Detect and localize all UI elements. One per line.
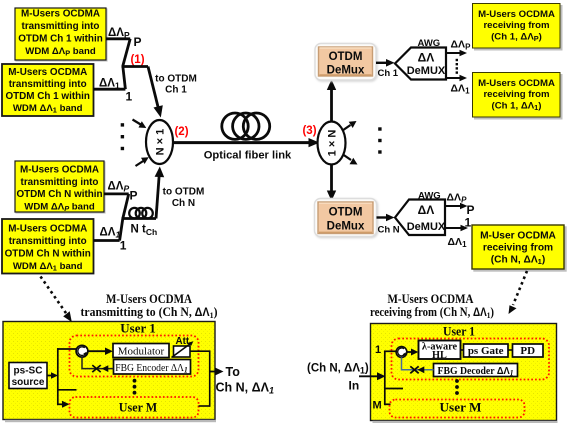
svg-text:receiving from: receiving from (483, 242, 553, 253)
svg-text:User M: User M (119, 400, 158, 415)
svg-text:M-User OCDMA: M-User OCDMA (480, 231, 556, 242)
svg-text:ΔΛ: ΔΛ (418, 203, 435, 217)
dots between AWG1 outputs (456, 59, 458, 61)
wire from box3 to node P (104, 192, 129, 195)
wire splitter down to OTDM DeMux ChN, arrow down (330, 165, 333, 194)
wire junction to bend (122, 65, 149, 68)
svg-text:(Ch N, ΔΛ1): (Ch N, ΔΛ1) (491, 254, 546, 266)
svg-text:DeMux: DeMux (327, 220, 365, 232)
svg-text:(1): (1) (130, 54, 144, 66)
input arrow into receiver panel (359, 375, 378, 377)
svg-text:transmitting into: transmitting into (22, 21, 100, 32)
yellow box: M-Users OCDMA transmitting into OTDM Ch 1 within WDM dLp band (15, 8, 106, 60)
attenuator symbol (174, 346, 191, 357)
dotted arrow from (Ch N) receive box to receiver panel (513, 271, 527, 305)
user 1 dashed box (transmitter) (70, 336, 199, 377)
dots between users (transmitter) (133, 379, 137, 383)
OTDM DeMux box (Ch 1) (315, 44, 376, 81)
yellow box: M-User OCDMA receiving from (Ch N, dL_1) (472, 225, 564, 269)
svg-text:M-Users OCDMA: M-Users OCDMA (21, 9, 100, 20)
svg-text:ps-SC: ps-SC (14, 366, 43, 377)
AWG1 output wire dL_P with arrow (446, 52, 461, 54)
Modulator box (113, 344, 169, 358)
wire circulator down to FBG Decoder (402, 357, 434, 369)
ps Gate box (464, 344, 509, 357)
AWG2 output wire dL_P with arrow, node P (445, 205, 462, 207)
small input arrow upper-left of combiner (133, 120, 142, 126)
splice X symbol (receiver) (410, 366, 418, 373)
input bus (receiver) (384, 351, 386, 406)
FBG Encoder box (114, 360, 191, 375)
output arrow To Ch N (210, 371, 216, 373)
optical fiber link line with arrow (173, 141, 312, 144)
svg-text:To: To (226, 365, 241, 379)
small output arrow lower-right of splitter (343, 155, 351, 161)
receiver panel (bottom-right yellow panel) (371, 324, 557, 421)
svg-text:M-Users OCDMA: M-Users OCDMA (8, 224, 87, 235)
svg-text:transmitting into: transmitting into (9, 236, 87, 247)
svg-text:Ch N, ΔΛ1: Ch N, ΔΛ1 (216, 381, 274, 396)
AWG dL DeMUX (Ch 1) pentagon (395, 48, 446, 80)
fiber coil (222, 113, 248, 139)
wire ps Gate to PD (508, 349, 513, 351)
svg-text:DeMUX: DeMUX (407, 65, 446, 77)
svg-text:HL: HL (432, 350, 447, 361)
wire HL to ps Gate (461, 349, 464, 351)
splitter 1 x N ellipse (318, 122, 346, 165)
yellow box: M-Users OCDMA transmitting into OTDM Ch N within WDM dL1 band (2, 219, 94, 274)
left arrowhead on FBG wire (102, 365, 109, 372)
svg-text:WDM ΔΛ1 band: WDM ΔΛ1 band (13, 261, 83, 273)
svg-text:Ch N: Ch N (378, 225, 400, 236)
wire up to combiner with arrow (156, 175, 159, 219)
AWG1 output wire dL_1 with arrow (446, 77, 461, 79)
svg-text:(3): (3) (302, 125, 316, 137)
svg-text:OTDM Ch N within: OTDM Ch N within (16, 189, 102, 200)
svg-text:Ch 1: Ch 1 (378, 68, 399, 79)
circulator (transmitter) (76, 345, 88, 357)
splitter bus (transmitter) (57, 348, 59, 405)
arrow circulator to Modulator (88, 350, 106, 352)
wire attenuator to output bus (190, 350, 210, 352)
svg-text:transmitting into: transmitting into (9, 79, 87, 90)
PD box (513, 344, 544, 357)
svg-text:User 1: User 1 (443, 324, 475, 339)
svg-text:User M: User M (440, 400, 482, 415)
svg-text:transmitting to (Ch N, ΔΛ1): transmitting to (Ch N, ΔΛ1) (81, 305, 218, 320)
wire diagonal P down to junction (123, 39, 130, 66)
vertical ellipsis dots left of combiner (121, 123, 124, 126)
svg-text:Modulator: Modulator (118, 345, 165, 357)
wire from box4 to node 1 (94, 239, 120, 242)
AWG dL DeMUX (Ch N) pentagon (395, 200, 445, 236)
svg-text:WDM ΔΛ1 band: WDM ΔΛ1 band (13, 103, 83, 115)
svg-text:FBG Encoder ΔΛ1: FBG Encoder ΔΛ1 (115, 362, 187, 375)
svg-text:1: 1 (465, 215, 472, 229)
wire from box2 to node 1 (94, 88, 126, 91)
arrow ps-SC to bus (47, 375, 52, 377)
svg-text:P: P (134, 35, 142, 49)
branch to user 1 (57, 348, 77, 350)
svg-text:(Ch 1, ΔΛ1): (Ch 1, ΔΛ1) (492, 101, 542, 113)
wire from box1 to node P (106, 37, 130, 40)
small output arrow upper-right of splitter (343, 125, 351, 131)
svg-text:(Ch 1, ΔΛP): (Ch 1, ΔΛP) (491, 32, 542, 44)
svg-text:WDM ΔΛP band: WDM ΔΛP band (24, 202, 95, 214)
dots between users (receiver) (455, 379, 459, 383)
delay coil N t_Ch (129, 208, 140, 219)
user 1 dashed box (receiver) (392, 339, 550, 380)
svg-text:1: 1 (126, 90, 133, 104)
svg-text:M-Users OCDMA: M-Users OCDMA (20, 165, 99, 176)
svg-text:OTDM Ch 1 within: OTDM Ch 1 within (5, 91, 89, 102)
svg-text:receiving from (Ch N, ΔΛ1): receiving from (Ch N, ΔΛ1) (370, 305, 494, 320)
svg-text:to OTDM: to OTDM (155, 74, 197, 85)
svg-text:receiving from: receiving from (483, 89, 549, 100)
svg-text:1 × N: 1 × N (327, 130, 339, 157)
svg-text:source: source (12, 377, 45, 388)
yellow box: M-Users OCDMA receiving from (Ch 1, dL_1) (473, 73, 561, 118)
svg-text:In: In (349, 379, 360, 393)
svg-text:(2): (2) (174, 126, 188, 138)
arrow circulator to lambda-aware HL (407, 351, 412, 353)
circulator (receiver) (396, 347, 407, 358)
svg-text:M: M (373, 400, 382, 412)
svg-text:M-Users OCDMA: M-Users OCDMA (8, 67, 87, 78)
user M dashed box (transmitter) (70, 397, 199, 418)
wire diagonal P down to junction (123, 194, 129, 219)
svg-text:M-Users OCDMA: M-Users OCDMA (478, 9, 555, 20)
svg-text:Ch 1: Ch 1 (165, 85, 187, 96)
yellow box: M-Users OCDMA transmitting into OTDM Ch N within WDM dLp band (15, 161, 104, 213)
svg-text:DeMUX: DeMUX (407, 221, 446, 233)
svg-text:M-Users OCDMA: M-Users OCDMA (478, 78, 555, 89)
OTDM DeMux box (Ch N) (315, 199, 377, 237)
svg-text:ΔΛ: ΔΛ (418, 51, 435, 65)
wire junction through delay coil (122, 217, 157, 220)
dotted arrow from box4 to transmitter panel (41, 277, 68, 315)
wire user M to output bus (199, 405, 210, 407)
splice X symbol (92, 365, 100, 372)
svg-text:M-Users OCDMA: M-Users OCDMA (106, 292, 192, 306)
svg-text:P: P (130, 188, 138, 202)
combiner N x 1 ellipse (146, 120, 173, 164)
svg-text:OTDM: OTDM (329, 51, 363, 63)
svg-text:Ch N: Ch N (172, 198, 195, 209)
svg-text:PD: PD (520, 345, 535, 357)
svg-text:OTDM Ch 1 within: OTDM Ch 1 within (18, 33, 102, 44)
vertical ellipsis dots right of splitter (378, 127, 381, 130)
transmitter panel (bottom-left yellow panel) (3, 322, 215, 420)
left arrowhead on FBG Decoder wire (418, 366, 425, 373)
svg-text:transmitting into: transmitting into (21, 177, 99, 188)
branch to user M (receiver) (384, 403, 391, 405)
user M dashed box (receiver) (390, 400, 525, 418)
svg-text:M-Users OCDMA: M-Users OCDMA (388, 292, 474, 306)
svg-text:DeMux: DeMux (327, 64, 365, 76)
svg-text:N × 1: N × 1 (155, 129, 167, 156)
svg-text:AWG: AWG (418, 38, 441, 49)
svg-text:AWG: AWG (418, 190, 441, 201)
svg-text:ps Gate: ps Gate (468, 345, 504, 357)
wire circulator down to FBG Encoder (82, 357, 114, 369)
branch to user 1 (receiver) (384, 350, 397, 352)
svg-text:to OTDM: to OTDM (163, 187, 205, 198)
branch to user M with arrow (57, 403, 63, 405)
svg-text:User 1: User 1 (120, 321, 156, 336)
svg-text:OTDM Ch N within: OTDM Ch N within (5, 249, 91, 260)
wire OTDM DeMux to AWG DeMUX (Ch N) (377, 216, 389, 218)
yellow box: M-Users OCDMA transmitting into OTDM Ch 1 within WDM dL1 band (2, 64, 94, 116)
wire OTDM DeMux to AWG DeMUX (Ch 1) (376, 62, 388, 64)
branch tick middle (57, 389, 77, 391)
wire bend down to N x 1 combiner, arrow (148, 67, 158, 109)
wire diagonal 1 up to junction (123, 66, 126, 89)
AWG2 output wire dL_1 with arrow, node 1 (445, 227, 462, 229)
svg-text:1: 1 (375, 344, 381, 356)
svg-text:FBG Decoder ΔΛ1: FBG Decoder ΔΛ1 (438, 365, 514, 378)
FBG Decoder box (434, 364, 518, 377)
output bus (transmitter) (209, 350, 211, 406)
ps-SC source box (9, 363, 47, 389)
svg-text:Optical fiber link: Optical fiber link (204, 150, 292, 162)
svg-text:OTDM: OTDM (329, 207, 363, 219)
small input arrow lower-left of combiner (136, 161, 145, 167)
svg-text:receiving from: receiving from (483, 20, 549, 31)
wire splitter up to OTDM DeMux Ch1, arrow up (330, 88, 333, 122)
branch tick middle (receiver) (384, 388, 403, 390)
svg-text:WDM ΔΛP band: WDM ΔΛP band (25, 46, 96, 58)
yellow box: M-Users OCDMA receiving from (Ch 1, dL_P) (473, 4, 561, 49)
svg-text:(Ch N, ΔΛ1): (Ch N, ΔΛ1) (307, 363, 369, 376)
wire diagonal 1 up to junction (120, 219, 123, 241)
lambda-aware HL box (419, 341, 461, 360)
